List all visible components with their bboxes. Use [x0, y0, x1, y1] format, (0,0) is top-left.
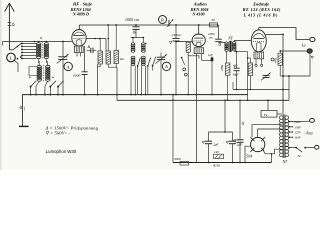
svg-text:6000: 6000 — [175, 157, 182, 161]
rectifier stub pins — [250, 137, 252, 139]
wire D smoothing — [233, 89, 289, 91]
wave band switch levers bottom — [30, 86, 32, 88]
detector coil top bus — [131, 37, 144, 39]
svg-text:40Ω: 40Ω — [273, 58, 277, 63]
svg-text:Endstufe: Endstufe — [252, 2, 269, 7]
resistor bottom leads — [97, 64, 99, 95]
svg-text:N 4099 D: N 4099 D — [72, 12, 89, 17]
svg-text:L 413 (L 416 D): L 413 (L 416 D) — [243, 13, 278, 18]
tuning capacitor C1 variable — [62, 42, 64, 57]
svg-text:4Ω: 4Ω — [120, 57, 125, 61]
long vertical drop left — [172, 95, 174, 163]
power transformer right winding — [285, 116, 289, 120]
power transformer left winding — [280, 116, 284, 120]
svg-text:220V: 220V — [294, 120, 302, 124]
svg-text:110V: 110V — [294, 136, 301, 140]
resistor 50 in HT line — [210, 23, 218, 27]
switch contact fan — [21, 42, 23, 44]
wire top to speaker terminal — [259, 28, 310, 40]
cathode resistor output stage — [278, 53, 282, 65]
speaker terminal La 2 — [307, 49, 312, 53]
mains terminal top — [293, 120, 309, 122]
svg-text:2μF: 2μF — [213, 143, 219, 147]
svg-text:RE 134 (RES 164): RE 134 (RES 164) — [243, 7, 281, 12]
switch lever — [152, 65, 154, 67]
feed wire to caps — [224, 100, 226, 132]
grid wire to audion — [176, 41, 192, 43]
svg-text:240cm: 240cm — [172, 33, 182, 37]
filter capacitor 2uF second — [232, 132, 234, 141]
tube V1 RENS1264 HF pentode — [72, 30, 86, 47]
svg-text:1μF: 1μF — [208, 53, 213, 57]
detector coils upper — [131, 43, 135, 46]
rectifier SE pin wire to transformer — [263, 149, 282, 154]
tube V1 base — [75, 46, 84, 53]
rectifier tube 504 — [251, 137, 265, 151]
tube V1 top cap lead — [78, 25, 80, 30]
tube V2 base — [194, 48, 203, 54]
rectifier top heater wire — [258, 129, 282, 137]
anode feed wire — [280, 50, 307, 52]
svg-text:A: A — [165, 64, 168, 69]
power transformer core — [282, 115, 284, 159]
rectifier left lead — [245, 146, 251, 162]
small bypass capacitor at cathode — [90, 48, 92, 53]
svg-text:50: 50 — [211, 18, 215, 22]
knob mark A2 — [162, 62, 170, 70]
svg-text:6000: 6000 — [73, 74, 80, 78]
svg-text:∇ = 500V~ -: ∇ = 500V~ - — [46, 130, 71, 135]
detector coils lower — [131, 56, 135, 59]
grid wire W1 — [3, 41, 72, 43]
tube V3 base — [254, 52, 264, 59]
wire antenna to switch — [9, 49, 13, 51]
anode row wire — [86, 38, 106, 40]
NT secondary bottom — [234, 51, 247, 53]
bus B HT negative — [117, 99, 289, 101]
filter capacitor 2uF first — [208, 132, 210, 141]
phono jacks — [183, 68, 186, 71]
tube V3 RE134 output — [251, 30, 266, 52]
coil bottom leads — [36, 81, 39, 86]
svg-text:Lumophon W30: Lumophon W30 — [46, 149, 77, 154]
dial lamp L — [7, 53, 16, 62]
cathode capacitor 1uF audion — [202, 59, 212, 61]
svg-text:Audion: Audion — [193, 2, 208, 7]
cathode bypass capacitor 4uF — [236, 52, 238, 69]
antenna test marks — [8, 22, 12, 24]
svg-text:2MΩ: 2MΩ — [220, 64, 224, 71]
svg-text:504: 504 — [246, 155, 252, 159]
svg-text:Fe: Fe — [263, 113, 268, 117]
bias resistor — [248, 63, 252, 75]
speaker return wire — [283, 75, 310, 77]
svg-text:La: La — [301, 44, 306, 48]
grid blocking component — [271, 58, 274, 61]
detector coil leads to bus — [130, 66, 132, 95]
fuse holder Fe — [267, 100, 269, 110]
antenna coil upper pair with core — [37, 43, 41, 46]
arrow mark on coil — [145, 42, 147, 44]
ground symbol — [21, 95, 23, 127]
cathode lead with 6000cm capacitor — [84, 46, 86, 72]
wire lamp stub — [14, 60, 18, 72]
NT secondary top to output grid — [233, 40, 235, 41]
tube V1 pins — [76, 53, 78, 57]
grid leak resistor — [186, 42, 190, 52]
volume potentiometer R — [159, 16, 167, 24]
coil interconnects — [38, 59, 41, 65]
hum balance trimmer — [263, 74, 270, 76]
tube V2 cathode lead long — [195, 54, 197, 163]
svg-text:140: 140 — [214, 150, 219, 154]
svg-text:L: L — [10, 55, 13, 60]
knob mark A1 — [64, 62, 72, 70]
resistor Ra — [98, 51, 102, 64]
tube V3 filament pins — [255, 59, 257, 64]
svg-text:Si: Si — [298, 154, 301, 158]
svg-text:HF - Stufe: HF - Stufe — [72, 2, 92, 7]
svg-text:N: N — [241, 122, 245, 126]
rectifier anode wire upper — [252, 125, 282, 137]
svg-text:~Netz: ~Netz — [304, 132, 313, 136]
Fe to transformer top tap — [277, 113, 282, 115]
small resistor on bottom bus — [180, 161, 189, 165]
detector tuning capacitor C2 — [160, 53, 162, 58]
switch lever antenna selector — [13, 43, 22, 50]
antenna A — [8, 3, 10, 50]
svg-text:R130: R130 — [212, 164, 220, 168]
resistor Rc screen — [114, 50, 118, 63]
tube V2 REN1004 audion — [192, 34, 205, 47]
svg-text:A: A — [67, 64, 70, 69]
grid resistor 2MOhm — [226, 63, 230, 75]
scan edge shade — [0, 0, 2, 170]
antenna coil lower pair — [37, 65, 41, 68]
speaker terminal La 1 — [310, 37, 315, 41]
anode vertical wire — [282, 34, 284, 114]
svg-text:40μF: 40μF — [232, 72, 239, 76]
svg-text:125V: 125V — [294, 131, 302, 135]
svg-text:R: R — [161, 17, 164, 22]
mains voltage taps — [288, 121, 293, 123]
NT primary bottom to grid resistor — [226, 51, 228, 63]
svg-text:150V: 150V — [294, 125, 302, 129]
svg-text:1000 cm: 1000 cm — [125, 18, 139, 22]
band switch levers mid — [137, 65, 139, 67]
top HT wire W2 — [79, 24, 218, 26]
wire to bus B — [116, 67, 118, 100]
resistor Rb — [106, 51, 110, 64]
HT capacitor 2uF third with N — [239, 100, 241, 140]
mains switch Si — [288, 147, 296, 149]
tap bracket on lower coil — [29, 67, 37, 76]
svg-text:N 4100: N 4100 — [191, 11, 204, 16]
bottom bus — [173, 162, 272, 164]
mains terminal bottom — [315, 145, 319, 149]
grid leak to cathode bracket — [188, 52, 199, 58]
bus A chassis — [22, 94, 248, 96]
